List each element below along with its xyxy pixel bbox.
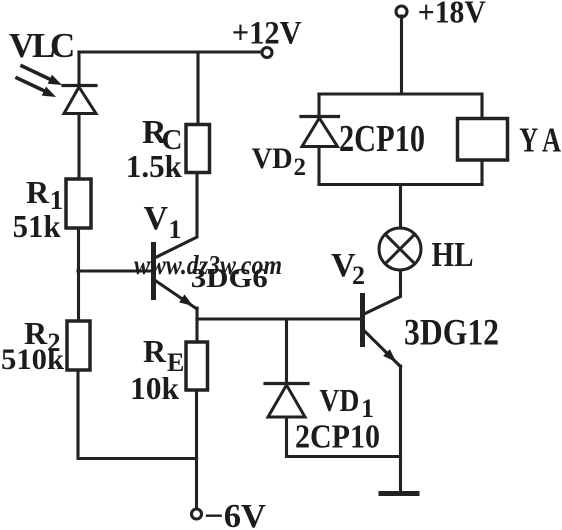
svg-text:2CP10: 2CP10 <box>295 419 380 456</box>
svg-text:−6V: −6V <box>204 498 266 530</box>
svg-text:510k: 510k <box>1 343 64 376</box>
svg-text:2CP10: 2CP10 <box>339 118 425 160</box>
svg-text:+12V: +12V <box>232 15 302 51</box>
svg-text:C: C <box>50 26 75 65</box>
svg-text:1.5k: 1.5k <box>126 148 182 184</box>
svg-text:V: V <box>144 200 169 237</box>
svg-text:Y: Y <box>519 121 538 160</box>
svg-text:2: 2 <box>294 154 307 181</box>
svg-text:51k: 51k <box>13 208 61 244</box>
svg-text:HL: HL <box>432 235 474 274</box>
svg-text:R: R <box>143 333 167 369</box>
svg-text:10k: 10k <box>130 370 179 406</box>
svg-text:2: 2 <box>352 261 365 290</box>
svg-text:www.dz3w.com: www.dz3w.com <box>134 250 282 280</box>
svg-text:V: V <box>9 26 34 65</box>
svg-text:1: 1 <box>169 215 182 244</box>
svg-text:+18V: +18V <box>418 0 486 29</box>
svg-text:VD: VD <box>252 142 293 175</box>
svg-text:R: R <box>26 174 50 210</box>
svg-text:A: A <box>542 121 562 160</box>
svg-text:VD: VD <box>319 382 359 418</box>
svg-text:3DG12: 3DG12 <box>404 313 499 354</box>
